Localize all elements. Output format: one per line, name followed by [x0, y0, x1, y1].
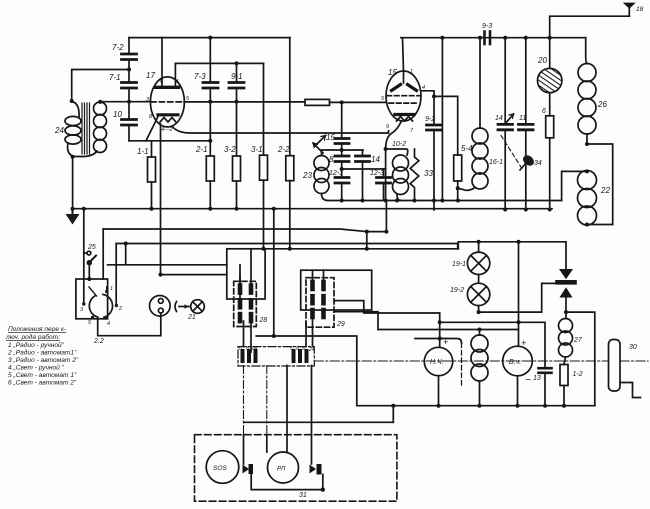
wire resistor 2-1 leads	[209, 102, 211, 156]
svg-text:12-1: 12-1	[329, 170, 343, 177]
node grid-2-1	[208, 100, 212, 104]
rotary contact 2	[115, 304, 118, 307]
wire y338.5 link	[415, 339, 462, 344]
node res1-2 bus	[562, 404, 566, 408]
wire coil26 to coil22 loop	[587, 144, 613, 225]
node NCH bus	[437, 404, 441, 408]
svg-text:6: 6	[542, 108, 546, 115]
svg-text:ав: ав	[252, 346, 258, 352]
connector 28 dashed box	[234, 281, 257, 326]
capacitor 12-3	[377, 178, 391, 184]
wire res6 bottom	[549, 138, 551, 210]
wire under-28 y336	[256, 336, 357, 406]
svg-text:1 „Радио - ручной”: 1 „Радио - ручной”	[8, 341, 65, 349]
lamp 19-1	[467, 252, 489, 274]
capacitor 15 variable	[335, 139, 349, 144]
tube 17 anode leads	[161, 38, 163, 86]
connector 29b outer box	[301, 270, 372, 310]
wire primary top to cap 7-1 node	[72, 70, 129, 102]
wire resistor 1-1 leads	[151, 141, 153, 157]
svg-text:8: 8	[246, 346, 249, 352]
rotary switch 1-26	[89, 287, 113, 317]
capacitor 14 IF	[356, 156, 370, 162]
svg-text:2: 2	[118, 306, 122, 312]
svg-text:3 „Радио - автомат 2”: 3 „Радио - автомат 2”	[8, 356, 79, 364]
wire tube15 pin4	[421, 91, 434, 97]
wire cathode column	[385, 149, 387, 201]
rotary contact 4	[104, 316, 107, 319]
wire cap column x129	[128, 38, 130, 54]
svg-text:б: б	[296, 346, 299, 352]
wire audio mid y329.5	[378, 329, 518, 331]
node under-28 start	[272, 334, 276, 338]
transformer T 24 core	[82, 103, 90, 154]
wire lamp20 leads	[549, 38, 551, 69]
svg-text:19-2: 19-2	[450, 287, 464, 294]
resistor 3-2	[233, 156, 241, 181]
wire grid to tube15	[330, 101, 387, 103]
svg-text:3-1: 3-1	[251, 145, 263, 154]
node grid-3-2	[235, 100, 239, 104]
wire coil 23 bottom to line201	[322, 194, 329, 201]
node coil23 cap15	[340, 148, 344, 152]
chain line right of 30	[620, 360, 648, 362]
wire coil22 top to IF line	[562, 171, 587, 200]
wire NCH top	[439, 313, 441, 347]
svg-text:34: 34	[534, 160, 542, 167]
wire riser to box31	[392, 406, 394, 423]
svg-text:1: 1	[176, 79, 179, 85]
wire cap 12-3 column	[383, 169, 385, 178]
svg-text:15: 15	[326, 133, 335, 142]
wire contact1 lead	[106, 287, 108, 292]
node L2b 2-2	[288, 247, 292, 251]
wire antenna rail corner to coil 26	[586, 38, 587, 64]
strip pads right	[294, 351, 307, 361]
svg-text:31: 31	[299, 492, 307, 499]
cap 14 arrow	[505, 114, 514, 124]
svg-text:22: 22	[600, 186, 610, 195]
svg-text:24: 24	[308, 347, 315, 353]
svg-text:18: 18	[636, 6, 644, 13]
meter NCH circle	[424, 347, 452, 375]
wire rail L2 y243.5	[116, 243, 458, 245]
tube 15 pin labels	[381, 69, 425, 134]
capacitor 7-2	[122, 54, 137, 60]
wire 5-4 bottom	[457, 181, 459, 201]
lamp 21 bulb	[191, 300, 205, 314]
node L2b branch	[365, 247, 369, 251]
wire IF bottom line y200.5	[328, 200, 562, 202]
svg-text:2 „Радио - автомат1”: 2 „Радио - автомат1”	[7, 349, 77, 357]
wire pin4 down through 9-2	[433, 96, 435, 125]
gang dashed link	[501, 136, 522, 169]
capacitor 13	[539, 368, 552, 373]
node switch25 bus	[82, 207, 86, 211]
node transformer bottom-left	[71, 155, 75, 159]
node speaker bus	[478, 404, 482, 408]
wire cap11 column	[525, 38, 527, 125]
wire lamps column	[478, 242, 480, 252]
node speaker top	[478, 328, 482, 332]
box31 drops inside	[243, 435, 245, 464]
sensor RL arrow pad	[310, 465, 317, 474]
node Q on socket column	[159, 273, 163, 277]
svg-text:люч. рода работ:: люч. рода работ:	[5, 333, 60, 341]
wire L2b jog to lamp rail	[458, 242, 566, 249]
wire grid line y101.6	[100, 101, 151, 103]
tube 17 cathode bar	[158, 113, 178, 116]
node L2b 3-1	[262, 247, 266, 251]
node return-2-1	[208, 139, 212, 143]
svg-text:20: 20	[537, 56, 547, 65]
svg-text:1-1: 1-1	[137, 147, 149, 156]
wire L2 end tie	[457, 244, 459, 249]
rotary contact 3	[82, 302, 85, 305]
node cap13 bus	[543, 404, 547, 408]
cap 15 arrow	[315, 136, 326, 147]
tube 17 anode bars	[156, 86, 169, 89]
wire primary bottom to ground bus	[72, 157, 74, 209]
node coil22 top	[585, 169, 589, 173]
strip drops chain left	[243, 366, 245, 435]
antenna rail y37.7	[401, 37, 586, 39]
svg-text:13: 13	[533, 375, 541, 382]
wire contact4 to lamp socket return	[98, 313, 161, 336]
ground	[72, 209, 74, 214]
coil 22	[578, 171, 597, 226]
node cap8 bottom	[340, 167, 344, 171]
capacitor 11 variable	[519, 124, 534, 129]
wire lamp to diode bar	[479, 283, 557, 312]
tube 17 envelope	[150, 77, 184, 127]
node B+ top	[440, 36, 444, 40]
coil 23 tuning arrow	[313, 143, 323, 153]
wire P riser	[125, 244, 127, 265]
svg-text:1: 1	[110, 286, 113, 292]
svg-text:26: 26	[597, 100, 607, 109]
resistor 6	[546, 116, 554, 138]
wire resistor 2-2 leads	[289, 38, 291, 156]
svg-text:б: б	[239, 346, 242, 352]
capacitor 7-1	[122, 83, 137, 89]
resistor R horizontal (grid stopper)	[305, 99, 330, 105]
resistor 5-4	[454, 155, 462, 181]
speaker coil	[471, 330, 488, 406]
tube 15 envelope	[386, 71, 421, 121]
rotary contact 5	[91, 316, 94, 319]
ground bus wire	[73, 208, 553, 210]
connector 29b pads	[313, 282, 324, 317]
capacitor 14 variable main	[498, 124, 513, 129]
svg-text:3-2: 3-2	[224, 145, 236, 154]
wire cap 9-1 column	[236, 63, 238, 82]
node cap71-72	[127, 68, 131, 72]
svg-text:2-2: 2-2	[277, 145, 290, 154]
node L2b cathode	[384, 230, 388, 234]
tube 15 anode lead	[403, 38, 404, 83]
wire AVC y169	[342, 168, 386, 170]
node grid line at x129	[127, 100, 131, 104]
svg-text:В.ч.: В.ч.	[509, 359, 521, 366]
tube 17 pin labels	[146, 79, 190, 133]
wire B+ column x442	[441, 38, 443, 201]
node lamp bottom	[477, 310, 481, 314]
svg-text:14: 14	[495, 115, 503, 122]
tube 17 grid dashed	[151, 101, 184, 103]
node coil22 bottom	[585, 223, 589, 227]
wire VCH bottom	[517, 376, 519, 406]
wire 29b path2	[334, 312, 378, 330]
lamp 20 neon	[534, 57, 566, 104]
SEC3x	[5, 201, 648, 502]
tube 15 anode bars	[392, 85, 401, 91]
wire top rail y37.6	[129, 37, 290, 39]
chain drop x461.5	[461, 343, 463, 385]
wire cathode return y140.8	[129, 140, 210, 142]
tube 15 cathode bar	[395, 113, 414, 116]
node P riser top	[124, 242, 128, 246]
wire cap14 column	[362, 150, 364, 156]
transformer 24 primary winding	[65, 102, 81, 157]
coil 26	[578, 64, 596, 145]
node res6 bus	[548, 208, 552, 212]
node branch L1	[365, 230, 369, 234]
node lamps top	[477, 240, 481, 244]
strip drop solid 2	[311, 366, 313, 435]
node 2-1 bus	[208, 207, 212, 211]
sensor SOS arrow pad	[243, 465, 250, 474]
capacitor 10	[122, 120, 137, 126]
svg-text:+: +	[443, 337, 448, 347]
node IF bottoms	[340, 199, 344, 203]
svg-text:9-3: 9-3	[482, 23, 492, 30]
svg-text:10: 10	[113, 110, 122, 119]
diode VD bottom	[560, 287, 573, 318]
svg-text:1-2: 1-2	[573, 371, 583, 378]
sensor RL circle	[268, 452, 299, 483]
svg-text:30: 30	[629, 344, 637, 351]
connector strip 29 chain box	[238, 347, 314, 366]
wire 29b path1	[334, 301, 440, 313]
box31 internal wire	[251, 474, 323, 490]
rotary contact labels	[80, 286, 122, 327]
sensor SOS circle	[206, 451, 239, 484]
capacitor 12-1	[335, 178, 349, 184]
lamp 21 plug arrow	[175, 302, 189, 312]
node transformer top-left	[70, 99, 74, 103]
svg-text:15: 15	[388, 68, 397, 77]
strip drop solid 1	[286, 366, 288, 435]
node 29b top rail	[311, 248, 313, 250]
svg-text:25: 25	[87, 244, 96, 251]
diode VD top	[558, 242, 575, 282]
node NCH on y322	[438, 320, 442, 324]
wire diode joint to right riser	[566, 312, 595, 406]
wire Q y274.6	[161, 274, 227, 276]
svg-text:2.2: 2.2	[93, 338, 104, 345]
wire audio bottom bus	[357, 405, 595, 407]
main chain line	[314, 360, 608, 362]
node VCH y322	[517, 320, 521, 324]
node 5-4 coil16-1	[456, 186, 460, 190]
node VCH rail	[517, 240, 521, 244]
capacitor 9-3 series	[485, 32, 491, 45]
svg-text:1: 1	[410, 69, 413, 75]
svg-text:28: 28	[259, 317, 268, 324]
node transformer top-right	[98, 100, 102, 104]
coil 23	[314, 156, 329, 194]
svg-text:Н.Ч.: Н.Ч.	[430, 359, 444, 366]
svg-text:6 „Свет - автомат 2”: 6 „Свет - автомат 2”	[8, 380, 77, 387]
strip drops chain mid	[266, 366, 268, 435]
tube 15 grids dashed	[387, 95, 420, 97]
svg-text:7-2: 7-2	[112, 43, 124, 52]
connector 28 outer box	[227, 249, 265, 299]
wire P y264.8	[108, 264, 227, 266]
node 16-1 top	[478, 36, 482, 40]
svg-text:8: 8	[329, 155, 334, 164]
wire coil27 to resistor	[564, 357, 566, 365]
svg-text:5: 5	[290, 346, 293, 352]
tube 15 heater	[397, 117, 413, 122]
svg-text:2-1: 2-1	[195, 145, 208, 154]
svg-text:8: 8	[302, 346, 305, 352]
lamp 19-2	[467, 283, 489, 305]
resistor 2-1	[206, 156, 214, 181]
varicap 34	[520, 153, 536, 170]
switch 25	[84, 209, 96, 304]
wire L1 left drop to switch box	[102, 229, 104, 279]
meter VCH circle	[503, 346, 533, 376]
svg-text:24: 24	[54, 126, 64, 135]
coil 16-1	[458, 38, 488, 191]
svg-text:7-1: 7-1	[109, 73, 121, 82]
svg-text:23: 23	[302, 171, 312, 180]
svg-text:9: 9	[386, 124, 389, 130]
svg-text:19-1: 19-1	[452, 261, 466, 268]
wire resistor 3-1 leads	[263, 63, 265, 155]
wire IF column x341.7	[341, 102, 343, 138]
node box top x90	[87, 277, 91, 281]
switch box A	[76, 279, 108, 319]
svg-text:4: 4	[107, 321, 110, 327]
svg-text:12-3: 12-3	[370, 170, 384, 177]
wire cathode diagonal to return	[146, 117, 158, 141]
capacitor 9-2	[427, 125, 442, 130]
svg-text:9-2: 9-2	[425, 116, 435, 123]
wire rail L1 y229	[103, 229, 367, 232]
wire cap13 stub	[544, 373, 546, 406]
svg-text:SOS: SOS	[213, 465, 227, 472]
connector 28 pads	[240, 286, 251, 322]
resistor 3-1	[260, 155, 268, 180]
capacitor 7-3	[203, 83, 218, 89]
svg-text:29: 29	[336, 321, 345, 328]
svg-text:14: 14	[371, 155, 380, 164]
resistor 1-1	[148, 157, 156, 182]
rotary contact 1	[105, 290, 108, 293]
svg-text:+: +	[521, 338, 526, 348]
wire audio top y322.3	[440, 322, 545, 368]
wire res1-2 bottom	[563, 386, 565, 406]
node 9-1 top	[235, 61, 239, 65]
node 7-3 top	[208, 36, 212, 40]
node bus-ground	[71, 207, 75, 211]
svg-text:17: 17	[146, 71, 155, 80]
node grid-15 column	[340, 100, 344, 104]
node box31 wire	[321, 487, 325, 491]
resistor 33 zigzag	[410, 149, 419, 201]
wire NCH bottom	[438, 376, 440, 406]
svg-text:7-3: 7-3	[194, 72, 206, 81]
wire cap 7-3 column	[209, 38, 211, 83]
svg-text:4—2: 4—2	[161, 127, 173, 133]
node antenna joint	[548, 36, 552, 40]
capacitor 8	[335, 156, 349, 162]
node VCH bus	[516, 404, 520, 408]
connector 29b internal wires	[312, 270, 314, 282]
node cap14 bus	[503, 208, 507, 212]
antenna 18	[550, 3, 636, 38]
connector 28 internal wires	[239, 265, 241, 286]
strip pad labels	[239, 346, 315, 353]
wire y422 collector	[245, 421, 394, 423]
node bus2 riser31	[391, 404, 395, 408]
connector 30	[609, 340, 641, 398]
transformer 24 secondary winding	[74, 102, 107, 157]
node diode-coil joint	[564, 310, 568, 314]
svg-text:33: 33	[424, 169, 433, 178]
svg-text:16-1: 16-1	[489, 159, 503, 166]
node cap11 top	[524, 36, 528, 40]
svg-text:Положения пере к-: Положения пере к-	[8, 326, 67, 333]
wire pin4 to 5-4	[434, 96, 458, 155]
connector 29b dashed box	[306, 278, 334, 328]
lamp socket 21 holder	[150, 296, 171, 317]
svg-text:4 „Свет - ручной ”: 4 „Свет - ручной ”	[8, 364, 65, 372]
coil 27	[559, 319, 573, 358]
resistor 2-2	[286, 156, 294, 181]
capacitor 9-1	[229, 83, 244, 89]
wire cap14var column	[504, 38, 506, 125]
wire tube17 cathode drop	[160, 124, 162, 274]
node coil26 bottom	[585, 142, 589, 146]
node 1-1 bus	[150, 207, 154, 211]
wire riser bus to y336	[273, 209, 275, 336]
node pin4 branch	[432, 94, 436, 98]
node cap11 bus	[524, 208, 528, 212]
node 9-2 on line201	[432, 199, 436, 203]
tube 17 heater	[160, 118, 176, 123]
svg-text:10-2: 10-2	[392, 141, 406, 148]
wire tube15 cathode to 10-2	[386, 122, 401, 149]
wire second rail y63.4	[175, 62, 263, 64]
node cap14 top	[503, 36, 507, 40]
strip pads left	[243, 351, 256, 361]
mode list text	[5, 326, 79, 387]
node riser bus	[272, 207, 276, 211]
svg-text:27: 27	[573, 337, 583, 344]
connector 28 lower drops	[243, 321, 245, 347]
node 3-2 bus	[235, 207, 239, 211]
coil 10-2	[386, 149, 409, 201]
wire coil 23 top	[322, 150, 364, 156]
wire tube17 bottom to right y133	[172, 127, 389, 134]
wire resistor 3-2 leads	[236, 102, 238, 156]
wire VCH top column	[518, 242, 520, 346]
node bus2 cap13	[544, 405, 546, 407]
